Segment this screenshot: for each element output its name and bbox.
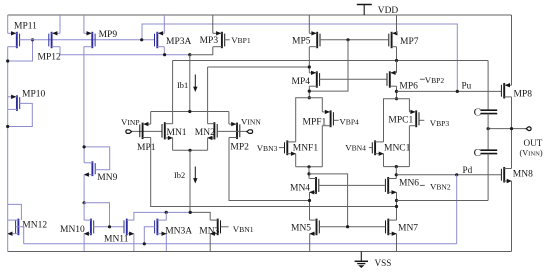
- svg-text:VBP1: VBP1: [231, 35, 251, 45]
- wire VSS rail: [8, 251, 512, 253]
- svg-text:MPF1: MPF1: [303, 117, 327, 127]
- svg-text:Pd: Pd: [463, 165, 473, 175]
- wire MN4 drain up: [308, 167, 310, 179]
- transistor MN3A: [156, 219, 158, 236]
- node MP2 injection junction: [308, 199, 311, 202]
- wire MN4 source down: [309, 192, 311, 220]
- svg-text:MP8: MP8: [514, 89, 533, 99]
- node tail bias junction A: [165, 211, 168, 214]
- node MN4 drain junction: [307, 172, 310, 175]
- node Pd blue junction: [455, 173, 458, 176]
- wire MP2 source up: [228, 112, 230, 125]
- svg-text:C: C: [474, 147, 481, 159]
- wire MP6 drain down: [396, 86, 398, 99]
- capacitor C lower: [487, 129, 489, 151]
- transistor MN5: [316, 219, 318, 236]
- svg-text:MN7: MN7: [398, 223, 418, 233]
- wire MP10 diode gate loop: [8, 103, 33, 126]
- wire bias gate rail y40: [20, 39, 155, 41]
- transistor MN1: [164, 122, 166, 139]
- wire MP5 source up: [308, 15, 310, 33]
- wire MN11 source down: [133, 234, 135, 252]
- node cap injection junction: [395, 199, 398, 202]
- wire blue Ib1 wire y55: [60, 54, 190, 56]
- wire MN5 source down: [309, 234, 311, 252]
- wire MN3A gate: [144, 227, 154, 244]
- wire tail top: [151, 111, 229, 113]
- wire VINP line: [132, 130, 162, 132]
- transistor MP10: [16, 95, 18, 111]
- wire MN9 source down: [83, 175, 85, 203]
- svg-text:VBN3: VBN3: [257, 143, 278, 153]
- transistor MP9: [91, 32, 93, 48]
- wire MP2 drain path: [229, 138, 310, 201]
- wire MP7 drain down: [396, 47, 398, 61]
- node Pu junction: [395, 90, 398, 93]
- wire MN8 source down: [511, 181, 513, 252]
- node MP4 drain junction: [308, 90, 311, 93]
- svg-text:MN10: MN10: [60, 225, 85, 235]
- node MP4 source junction: [308, 65, 311, 68]
- svg-text:MP4: MP4: [292, 77, 311, 87]
- node MN5 gate junction: [346, 225, 349, 228]
- svg-text:MP10: MP10: [22, 90, 45, 100]
- wire MPC1 drain down: [408, 126, 410, 167]
- svg-text:VBN1: VBN1: [233, 224, 254, 234]
- svg-text:VBP2: VBP2: [425, 75, 445, 85]
- svg-text:VBP3: VBP3: [430, 118, 450, 128]
- svg-text:MN4: MN4: [290, 183, 310, 193]
- wire MP11 diode gate loop: [8, 40, 33, 61]
- node OUT cap junction: [487, 127, 490, 130]
- svg-text:MN3: MN3: [199, 226, 219, 236]
- wire MN9 diode gate loop: [84, 147, 110, 170]
- node MP10 drain junction: [6, 125, 9, 128]
- node tail bias junction B: [189, 211, 192, 214]
- node Ib1 node: [188, 53, 191, 56]
- svg-text:MN8: MN8: [513, 169, 533, 179]
- wire MN4 drain to MN5 gates: [309, 174, 348, 227]
- transistor MN12: [17, 219, 19, 236]
- transistor MP11: [16, 32, 18, 48]
- wire OUT: [488, 128, 526, 130]
- wire Pd blue drop: [456, 175, 458, 244]
- transistor MPC1: [415, 110, 417, 127]
- wire MN12 source down: [7, 234, 9, 252]
- svg-text:MN1: MN1: [167, 128, 187, 138]
- wire MP3 drain down: [190, 47, 213, 55]
- node OUT drain junction: [510, 127, 513, 130]
- transistor MNF1: [286, 140, 288, 155]
- wire blue feedback rail y24: [142, 24, 457, 91]
- svg-text:MN9: MN9: [97, 173, 117, 183]
- node MN9 drain junction: [83, 145, 86, 148]
- transistor MN3: [217, 219, 219, 236]
- node tail junction: [188, 149, 191, 152]
- node MP4 drain box junction: [308, 96, 311, 99]
- node MN10 drain junction: [83, 201, 86, 204]
- wire MN12 gate to blue rail: [16, 227, 24, 244]
- svg-text:MP3: MP3: [200, 36, 219, 46]
- wire MN5-MN7 gate rail: [319, 226, 385, 228]
- port VINN: [247, 130, 253, 134]
- svg-text:Pu: Pu: [462, 80, 472, 90]
- annotation Ib1 current arrow: [194, 75, 196, 88]
- svg-text:MP12: MP12: [38, 52, 61, 62]
- wire MN1 drain up: [172, 61, 174, 124]
- ground VSS symbol: [360, 252, 362, 262]
- svg-text:(VINN): (VINN): [520, 149, 543, 158]
- svg-text:VINP: VINP: [121, 117, 140, 127]
- wire MP12 source up: [59, 15, 61, 33]
- wire MP5 gate down link: [309, 40, 348, 91]
- node MP11 gate junction: [31, 38, 34, 41]
- svg-text:Ib2: Ib2: [174, 171, 185, 180]
- wire tail bottom: [173, 149, 208, 151]
- svg-text:MP5: MP5: [292, 37, 311, 47]
- wire MP12 drain down: [59, 47, 61, 55]
- wire MN2 source down: [207, 138, 209, 150]
- wire MP9 drain down: [83, 47, 85, 147]
- transistor MP6: [389, 71, 391, 87]
- transistor MP8: [503, 83, 505, 99]
- wire MN4-MN6 gate rail: [319, 184, 386, 186]
- svg-text:VSS: VSS: [375, 258, 392, 268]
- node MP5 gate junction: [346, 38, 349, 41]
- wire MPC1 gate stub: [419, 119, 424, 121]
- wire MNF1 source down: [295, 154, 297, 167]
- svg-text:VDD: VDD: [378, 6, 399, 16]
- transistor MNC1: [374, 140, 376, 155]
- svg-text:VBN2: VBN2: [430, 182, 451, 192]
- node MN3A gate junction: [143, 242, 146, 245]
- wire blue bottom rail: [24, 243, 457, 245]
- node Pd junction: [395, 173, 398, 176]
- node MP6 drain box junction: [395, 97, 398, 100]
- svg-text:Ib1: Ib1: [177, 81, 188, 90]
- wire MN3 gate stub: [221, 226, 229, 228]
- wire VBN2 stub: [420, 184, 425, 186]
- node MN10 gate junction: [108, 225, 111, 228]
- transistor MP3A: [156, 32, 158, 48]
- svg-text:MN3A: MN3A: [165, 226, 192, 236]
- node MP3A drain junction: [163, 53, 166, 56]
- wire Pu: [397, 90, 502, 92]
- svg-text:C: C: [474, 106, 481, 118]
- wire cap lower to MN6 source: [397, 200, 489, 202]
- transistor MN4: [315, 177, 317, 194]
- node MP11 drain junction: [6, 59, 9, 62]
- wire MPF1 drain down: [321, 126, 323, 167]
- svg-text:MP11: MP11: [14, 21, 37, 31]
- transistor MP4: [316, 71, 318, 87]
- wire MN10 gate loop: [84, 203, 109, 227]
- annotation Ib2 current arrow: [194, 167, 196, 180]
- wire MP4-MP6 gate rail: [320, 78, 387, 80]
- wire left bias rail: [7, 47, 9, 234]
- wire MN1 source down: [172, 138, 174, 150]
- wire MP11 source up: [7, 15, 9, 33]
- transistor MP3: [221, 32, 223, 48]
- svg-text:MP7: MP7: [400, 37, 419, 47]
- wire MP3 gate stub: [225, 39, 230, 41]
- wire float left node: [296, 166, 323, 168]
- wire MN2 drain up: [207, 67, 209, 124]
- wire MP3A source up: [163, 15, 165, 33]
- node float left junction: [307, 165, 310, 168]
- svg-text:MNF1: MNF1: [293, 144, 319, 154]
- wire MN10-MN11 gate rail: [94, 226, 124, 228]
- transistor MP12: [51, 32, 53, 48]
- svg-text:VBN4: VBN4: [345, 143, 366, 153]
- wire VINN line: [217, 130, 246, 132]
- svg-text:MNC1: MNC1: [384, 144, 411, 154]
- svg-text:MN5: MN5: [291, 223, 311, 233]
- transistor MP2: [236, 123, 238, 139]
- node MP6 source junction: [395, 59, 398, 62]
- wire float right node: [384, 166, 410, 168]
- transistor MP5: [316, 32, 318, 48]
- svg-text:MN2: MN2: [195, 128, 215, 138]
- wire MP7 source up: [396, 15, 398, 33]
- wire MP8 source up: [511, 15, 513, 85]
- transistor MN11: [126, 219, 128, 236]
- transistor MN10: [90, 219, 92, 236]
- wire MN11 drain up: [134, 212, 190, 220]
- wire MP8 drain down: [511, 97, 513, 129]
- transistor MN6: [387, 177, 389, 194]
- port VINP: [126, 130, 132, 134]
- transistor MP1: [142, 123, 144, 139]
- wire MP1 drain path: [151, 138, 397, 207]
- wire MNC1 gate stub: [369, 147, 372, 149]
- svg-text:MN6: MN6: [399, 179, 419, 189]
- wire MP1 source up: [150, 112, 152, 125]
- wire MP5 drain down: [308, 47, 310, 73]
- wire MP6 source up: [396, 61, 398, 73]
- power symbol VDD: [357, 4, 372, 6]
- svg-text:MP9: MP9: [99, 30, 118, 40]
- wire crossed wire MN1 to MP6: [173, 60, 489, 62]
- wire MN3 source down: [209, 234, 211, 252]
- wire MN3A drain up: [165, 212, 167, 220]
- node tail top junction: [188, 110, 191, 113]
- node Pu blue junction: [456, 90, 459, 93]
- wire MN12 drain notch: [8, 204, 22, 220]
- svg-text:MP2: MP2: [230, 143, 249, 153]
- wire MN7 source down: [396, 234, 398, 252]
- wire Ib2 tail down: [189, 150, 191, 212]
- transistor MN7: [387, 219, 389, 236]
- node bias gate node: [140, 38, 143, 41]
- wire MP3A drain down: [163, 47, 165, 55]
- wire MN6 drain up: [395, 167, 397, 179]
- node MN6 source junction: [395, 205, 398, 208]
- svg-text:OUT: OUT: [524, 138, 543, 148]
- wire left cascode box: [296, 98, 323, 142]
- svg-text:VBP4: VBP4: [339, 116, 359, 126]
- wire MN9 drain up: [83, 147, 85, 163]
- svg-text:VINN: VINN: [241, 117, 261, 127]
- node float right junction: [395, 165, 398, 168]
- wire VBP2 stub: [420, 78, 425, 80]
- transistor MN2: [213, 122, 215, 139]
- wire tail bias node: [190, 212, 210, 220]
- transistor MN8: [503, 167, 505, 183]
- wire MN8 drain up: [511, 129, 513, 169]
- svg-text:MPC1: MPC1: [388, 115, 413, 125]
- wire MN10 source down: [83, 234, 85, 252]
- wire right cascode box: [384, 99, 410, 142]
- wire MN6 source down: [396, 192, 398, 220]
- wire MN3A source down: [165, 234, 167, 252]
- capacitor C upper: [487, 61, 489, 111]
- wire MN10 drain up: [83, 203, 85, 220]
- wire VDD top rail: [8, 14, 512, 16]
- svg-text:MP1: MP1: [137, 143, 156, 153]
- transistor MP7: [391, 32, 393, 48]
- svg-text:MN11: MN11: [104, 235, 129, 245]
- wire MP9 source up: [83, 15, 85, 33]
- wire MP5-MP7 gate rail: [320, 39, 389, 41]
- wire MNF1 gate stub: [279, 147, 284, 149]
- wire MPF1 gate stub: [334, 119, 339, 121]
- wire MP4 drain down: [308, 86, 310, 98]
- transistor MN9: [91, 161, 93, 176]
- transistor MPF1: [330, 110, 332, 127]
- port OUT: [526, 127, 531, 131]
- wire MNC1 source down: [383, 154, 385, 167]
- svg-text:MN12: MN12: [22, 221, 47, 231]
- wire Ib1 down: [189, 55, 191, 112]
- svg-text:MP3A: MP3A: [166, 37, 191, 47]
- svg-text:MP6: MP6: [399, 82, 418, 92]
- wire crossed wire MN2 to MP4: [208, 66, 310, 68]
- wire Pd: [396, 174, 501, 176]
- wire MP3 source up: [212, 15, 214, 33]
